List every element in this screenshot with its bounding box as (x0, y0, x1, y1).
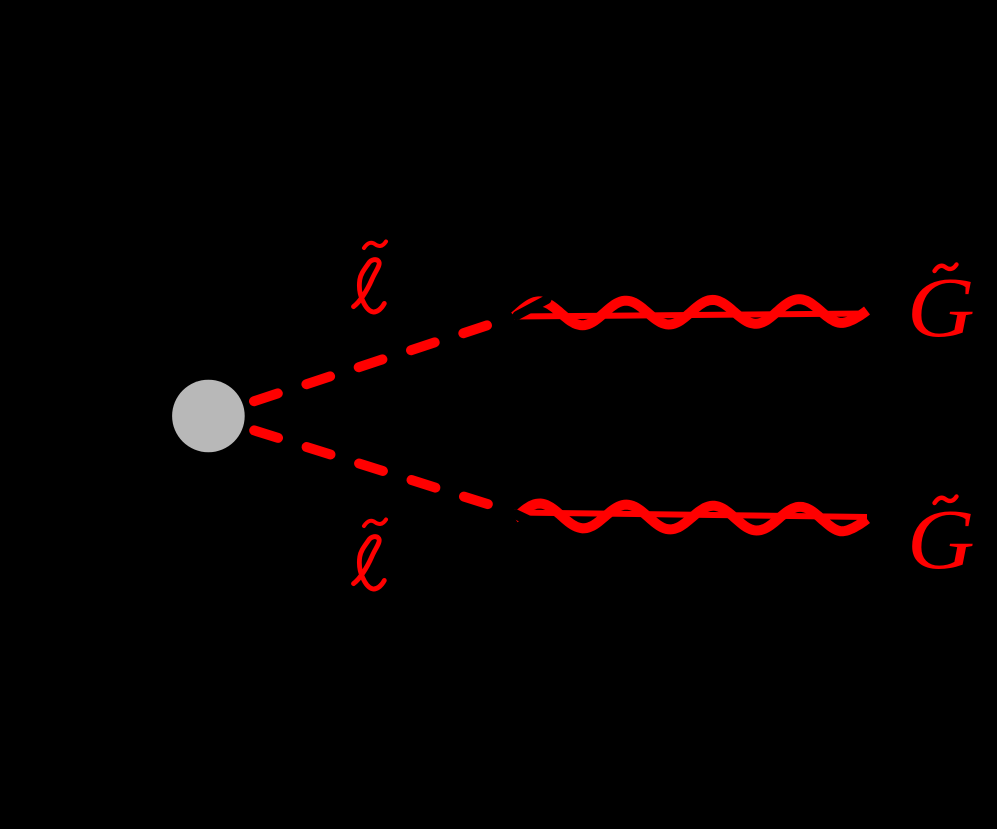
upper lepton line (black) crossing vertex (517, 300, 547, 316)
interaction blob (gray vertex) (172, 380, 245, 453)
lower gravitino propagator: straight line (515, 513, 868, 518)
lower slepton label ell-tilde (red) (354, 520, 387, 589)
svg-text:G: G (907, 260, 975, 355)
upper slepton propagator: red dashed line (254, 325, 487, 401)
lower slepton propagator: red dashed line (254, 430, 488, 504)
upper gravitino propagator: wavy line (515, 299, 868, 325)
lower gravitino propagator: wavy line (515, 504, 868, 532)
upper slepton label ell-tilde (red) (354, 242, 387, 312)
upper gravitino propagator: straight line (515, 314, 868, 317)
svg-text:G: G (907, 492, 975, 587)
lower lepton line (black) crossing vertex (516, 515, 535, 524)
upper gravitino label G-tilde (red) (907, 260, 975, 355)
lower gravitino label G-tilde (red) (907, 492, 975, 587)
